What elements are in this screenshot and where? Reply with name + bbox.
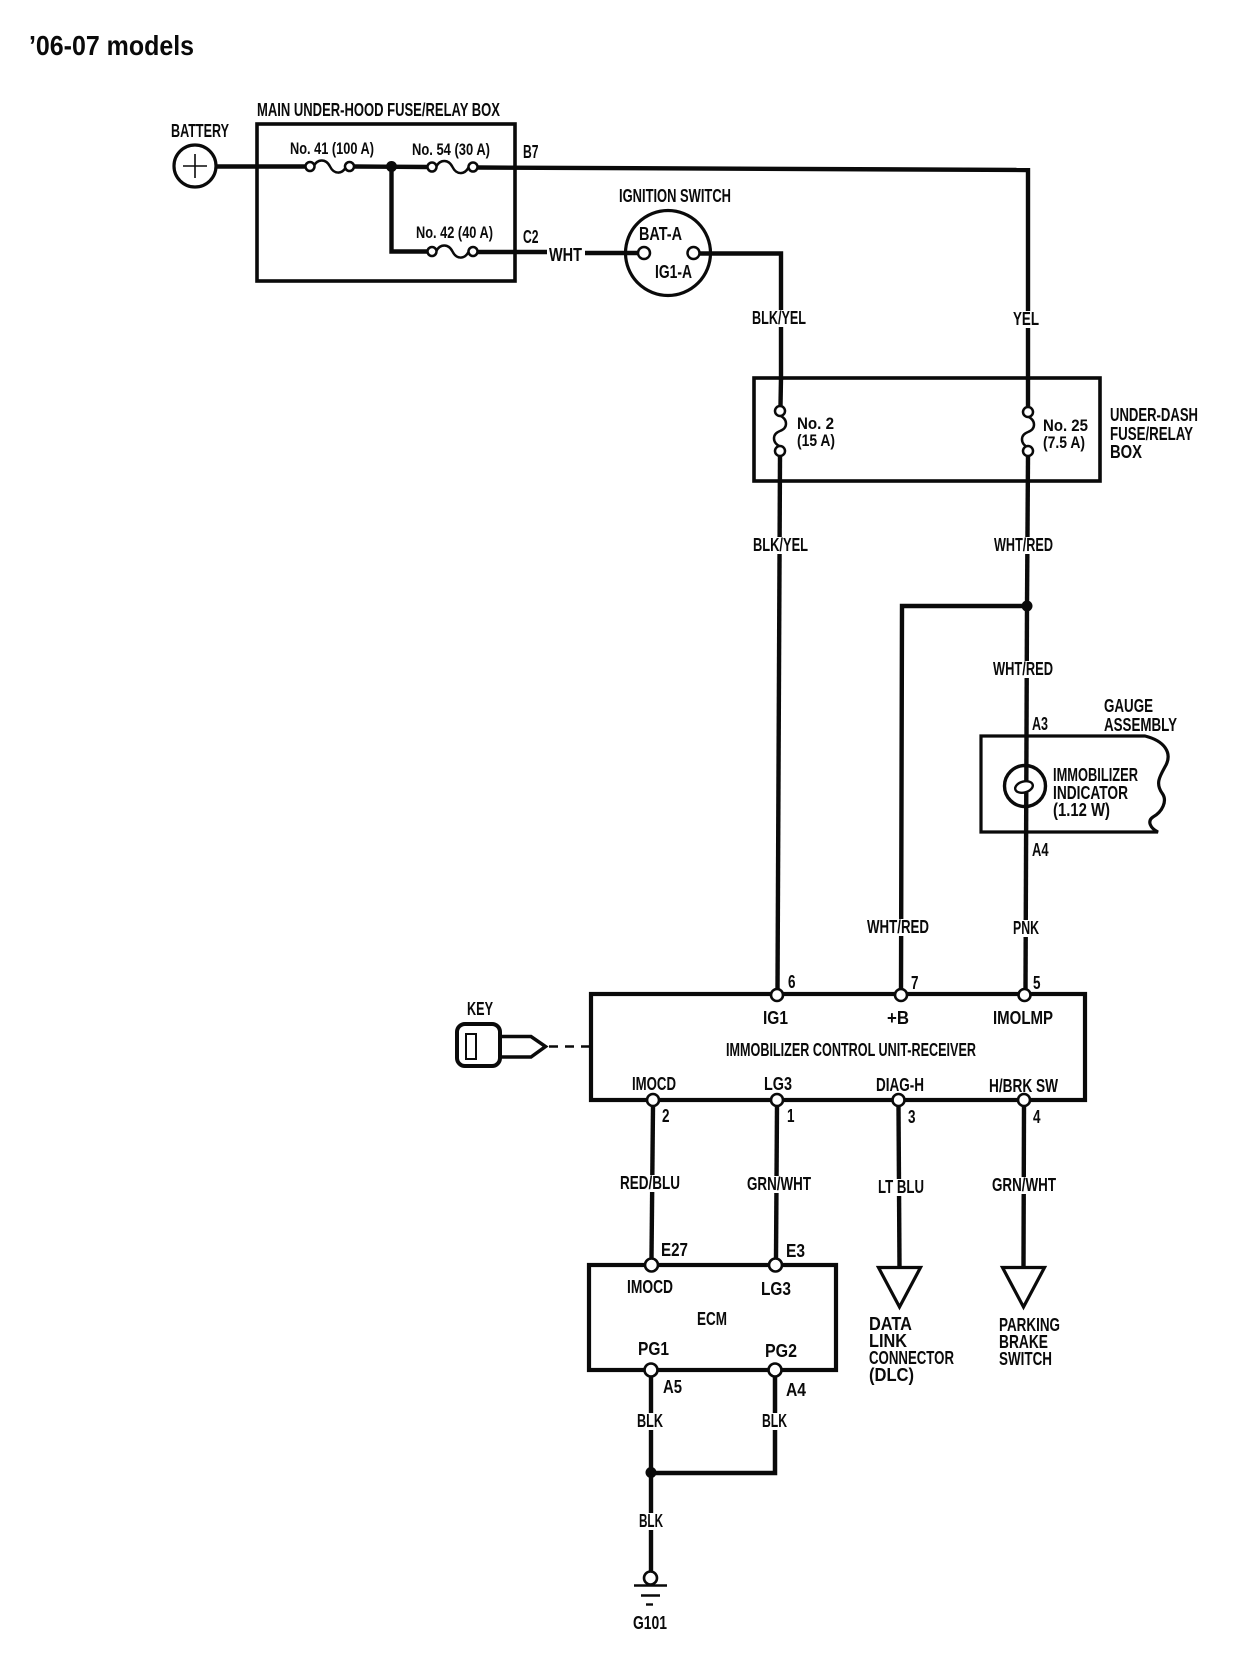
fuse No. 25 (7.5 A) bbox=[1022, 378, 1088, 456]
wire battery to fuse box bbox=[216, 164, 306, 168]
pin E27 IMOCD bbox=[645, 1259, 658, 1272]
fuse No. 42 (40 A) bbox=[416, 224, 493, 258]
svg-text:BLK/YEL: BLK/YEL bbox=[753, 535, 808, 555]
svg-text:E27: E27 bbox=[661, 1240, 688, 1260]
ignition switch SW1 bbox=[619, 186, 731, 296]
junction node WHT/RED bbox=[1022, 601, 1033, 612]
svg-text:KEY: KEY bbox=[467, 999, 493, 1019]
svg-text:B7: B7 bbox=[523, 142, 539, 162]
svg-text:IMMOBILIZER CONTROL UNIT-RECEI: IMMOBILIZER CONTROL UNIT-RECEIVER bbox=[726, 1040, 976, 1060]
svg-text:LG3: LG3 bbox=[764, 1074, 792, 1094]
junction node (main box) bbox=[386, 161, 397, 172]
svg-text:(15 A): (15 A) bbox=[797, 432, 835, 450]
svg-text:LG3: LG3 bbox=[761, 1279, 791, 1299]
svg-text:RED/BLU: RED/BLU bbox=[620, 1173, 680, 1193]
svg-text:A5: A5 bbox=[663, 1377, 682, 1397]
ECM box U2 bbox=[589, 1265, 836, 1370]
svg-text:BLK: BLK bbox=[637, 1411, 663, 1431]
svg-text:(1.12 W): (1.12 W) bbox=[1053, 800, 1110, 820]
wire IG1-A out, BLK/YEL drop bbox=[700, 254, 782, 381]
battery B1 bbox=[171, 121, 229, 187]
svg-text:BAT-A: BAT-A bbox=[639, 224, 682, 244]
svg-text:5: 5 bbox=[1033, 973, 1041, 993]
svg-text:IMOCD: IMOCD bbox=[632, 1074, 676, 1094]
svg-text:GRN/WHT: GRN/WHT bbox=[992, 1175, 1056, 1195]
svg-text:No. 2: No. 2 bbox=[797, 415, 834, 433]
fuse No. 54 (30 A) bbox=[412, 141, 490, 173]
wire BLK/YEL fuse2 to receiver pin 6 bbox=[778, 456, 781, 990]
pin 7 +B bbox=[895, 989, 907, 1001]
main under-hood fuse/relay box bbox=[257, 100, 515, 281]
svg-text:SWITCH: SWITCH bbox=[999, 1349, 1052, 1369]
svg-text:IMOLMP: IMOLMP bbox=[993, 1008, 1053, 1028]
svg-text:DIAG-H: DIAG-H bbox=[876, 1075, 924, 1095]
svg-text:(DLC): (DLC) bbox=[869, 1365, 914, 1385]
wire GRN/WHT pin4 to parking brake switch bbox=[1021, 1106, 1026, 1267]
svg-text:No. 25: No. 25 bbox=[1043, 417, 1088, 435]
svg-text:7: 7 bbox=[911, 973, 919, 993]
wire WHT/RED junction down through gauge to pin 5 bbox=[1026, 606, 1028, 990]
fuse No. 2 (15 A) bbox=[774, 378, 835, 456]
svg-text:A4: A4 bbox=[786, 1380, 806, 1400]
ground G101 bbox=[633, 1572, 667, 1634]
svg-text:GAUGE: GAUGE bbox=[1104, 696, 1153, 716]
svg-text:No. 41 (100 A): No. 41 (100 A) bbox=[290, 140, 374, 158]
svg-text:BATTERY: BATTERY bbox=[171, 121, 229, 141]
svg-text:C2: C2 bbox=[523, 227, 539, 247]
svg-text:+B: +B bbox=[887, 1008, 909, 1028]
pin 6 IG1 bbox=[771, 989, 783, 1001]
svg-text:No. 42 (40 A): No. 42 (40 A) bbox=[416, 224, 493, 242]
svg-text:1: 1 bbox=[787, 1106, 795, 1126]
wire fuse41 to junction to fuse54 bbox=[354, 164, 428, 169]
key symbol bbox=[457, 999, 546, 1066]
svg-text:ECM: ECM bbox=[697, 1309, 727, 1329]
wire branch to pin 7 bbox=[901, 606, 1027, 990]
svg-text:BLK: BLK bbox=[762, 1411, 787, 1431]
wire WHT/RED fuse25 down to junction bbox=[1027, 456, 1028, 606]
svg-text:WHT/RED: WHT/RED bbox=[994, 535, 1053, 555]
svg-text:6: 6 bbox=[788, 972, 796, 992]
svg-text:PG1: PG1 bbox=[638, 1339, 669, 1359]
svg-text:WHT/RED: WHT/RED bbox=[993, 659, 1053, 679]
svg-text:G101: G101 bbox=[633, 1613, 667, 1633]
svg-text:IGNITION SWITCH: IGNITION SWITCH bbox=[619, 186, 731, 206]
svg-text:BOX: BOX bbox=[1110, 442, 1142, 462]
svg-text:UNDER-DASH: UNDER-DASH bbox=[1110, 405, 1198, 425]
wire junction down to fuse 42 bbox=[392, 167, 429, 252]
svg-text:BLK: BLK bbox=[639, 1511, 663, 1531]
gauge assembly box bbox=[981, 696, 1177, 832]
svg-text:MAIN UNDER-HOOD FUSE/RELAY BOX: MAIN UNDER-HOOD FUSE/RELAY BOX bbox=[257, 100, 500, 120]
svg-text:A3: A3 bbox=[1032, 714, 1048, 734]
svg-text:(7.5 A): (7.5 A) bbox=[1043, 434, 1085, 452]
svg-text:PNK: PNK bbox=[1013, 918, 1039, 938]
wire YEL vertical drop bbox=[1026, 168, 1030, 380]
svg-text:3: 3 bbox=[908, 1107, 916, 1127]
svg-text:2: 2 bbox=[662, 1106, 670, 1126]
wire RED/BLU pin2 to E27 bbox=[652, 1106, 654, 1258]
svg-text:YEL: YEL bbox=[1013, 309, 1039, 329]
svg-text:4: 4 bbox=[1033, 1107, 1041, 1127]
svg-text:LT BLU: LT BLU bbox=[878, 1177, 924, 1197]
wire GRN/WHT pin1 to E3 bbox=[776, 1106, 777, 1258]
svg-text:’06-07 models: ’06-07 models bbox=[29, 30, 194, 61]
svg-text:WHT/RED: WHT/RED bbox=[867, 917, 929, 937]
svg-text:No. 54 (30 A): No. 54 (30 A) bbox=[412, 141, 490, 159]
svg-text:ASSEMBLY: ASSEMBLY bbox=[1104, 715, 1177, 735]
svg-text:IG1-A: IG1-A bbox=[655, 262, 692, 282]
svg-text:GRN/WHT: GRN/WHT bbox=[747, 1174, 811, 1194]
svg-text:WHT: WHT bbox=[549, 245, 582, 265]
svg-text:E3: E3 bbox=[786, 1241, 805, 1261]
pin E3 LG3 bbox=[769, 1259, 782, 1272]
svg-text:PG2: PG2 bbox=[765, 1341, 797, 1361]
data link connector triangle bbox=[869, 1268, 954, 1386]
svg-text:IMMOBILIZER: IMMOBILIZER bbox=[1053, 765, 1138, 785]
immobilizer indicator bulb (1.12 W) bbox=[1005, 765, 1139, 820]
junction node BLK bbox=[646, 1467, 657, 1478]
wire BLK PG1 down to ground bbox=[649, 1376, 653, 1572]
parking brake switch triangle bbox=[999, 1268, 1060, 1370]
svg-text:FUSE/RELAY: FUSE/RELAY bbox=[1110, 424, 1193, 444]
wire LT BLU pin3 to DLC bbox=[899, 1106, 900, 1267]
svg-text:IMOCD: IMOCD bbox=[627, 1277, 673, 1297]
immobilizer control unit-receiver box U1 bbox=[591, 994, 1085, 1100]
dashed link key to receiver bbox=[549, 1045, 592, 1048]
svg-text:A4: A4 bbox=[1032, 840, 1049, 860]
fuse No. 41 (100 A) bbox=[290, 140, 374, 173]
svg-text:BLK/YEL: BLK/YEL bbox=[752, 308, 806, 328]
wire BLK PG2 down and left to junction bbox=[651, 1376, 775, 1473]
svg-text:IG1: IG1 bbox=[763, 1008, 788, 1028]
under-dash fuse/relay box bbox=[754, 378, 1198, 481]
pin 5 IMOLMP bbox=[1019, 989, 1031, 1001]
